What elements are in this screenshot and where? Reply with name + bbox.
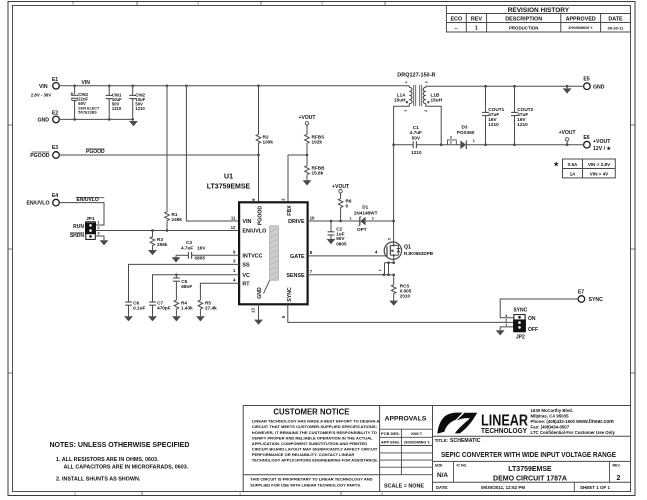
svg-text:SENSE: SENSE: [286, 273, 305, 279]
svg-text:EN/UVLO: EN/UVLO: [77, 197, 99, 203]
svg-text:SHEET 1 OF 1: SHEET 1 OF 1: [580, 485, 611, 490]
svg-text:VIN: VIN: [39, 84, 48, 90]
svg-text:1A: 1A: [570, 171, 577, 176]
svg-text:DRQ127-150-R: DRQ127-150-R: [397, 73, 435, 79]
svg-text:DESCRIPTION: DESCRIPTION: [505, 16, 542, 22]
svg-text:+VOUT: +VOUT: [593, 139, 611, 145]
svg-text:0805: 0805: [195, 256, 206, 261]
svg-text:12: 12: [231, 225, 236, 230]
svg-text:N/A: N/A: [437, 472, 448, 479]
svg-text:4.7uF: 4.7uF: [410, 130, 422, 135]
svg-text:1210: 1210: [411, 150, 422, 155]
svg-text:POS360: POS360: [457, 130, 475, 135]
svg-text:27.4k: 27.4k: [205, 305, 217, 310]
svg-text:255k: 255k: [157, 242, 168, 247]
svg-text:KIM T.: KIM T.: [411, 431, 423, 436]
svg-text:APP ENG.: APP ENG.: [381, 439, 400, 444]
svg-text:249k: 249k: [172, 217, 183, 222]
svg-text:--: --: [455, 26, 459, 32]
svg-text:1: 1: [349, 217, 351, 221]
svg-text:IC NO.: IC NO.: [457, 463, 468, 467]
svg-text:TITLE:: TITLE:: [435, 438, 449, 443]
svg-text:SEPIC CONVERTER WITH WIDE INPU: SEPIC CONVERTER WITH WIDE INPUT VOLTAGE …: [441, 450, 616, 459]
svg-text:APPROVALS: APPROVALS: [385, 416, 427, 423]
svg-text:1210: 1210: [112, 106, 122, 111]
svg-text:3: 3: [450, 135, 452, 139]
svg-text:0.5A: 0.5A: [568, 162, 578, 167]
svg-text:DEMO CIRCUIT 1787A: DEMO CIRCUIT 1787A: [493, 475, 567, 482]
svg-text:APPROVED: APPROVED: [566, 16, 596, 22]
svg-text:PCB DES.: PCB DES.: [381, 431, 400, 436]
svg-text:5: 5: [74, 492, 76, 496]
svg-text:50CE22BS: 50CE22BS: [78, 111, 97, 115]
svg-text:ECO: ECO: [450, 16, 462, 22]
svg-text:★: ★: [554, 161, 560, 168]
svg-text:APPLICATION. COMPONENT SUBSTIT: APPLICATION. COMPONENT SUBSTITUTION AND …: [252, 441, 367, 446]
svg-text:EN/UVLO: EN/UVLO: [242, 229, 266, 235]
svg-text:3: 3: [381, 492, 383, 496]
svg-text:1210: 1210: [517, 122, 528, 127]
svg-text:REV.: REV.: [613, 463, 621, 467]
svg-text:LINEAR TECHNOLOGY HAS MADE A B: LINEAR TECHNOLOGY HAS MADE A BEST EFFORT…: [252, 419, 380, 424]
svg-text:15.8k: 15.8k: [312, 171, 324, 176]
svg-text:E4: E4: [52, 193, 58, 199]
svg-text:2: 2: [505, 319, 507, 323]
svg-text:1: 1: [505, 323, 507, 327]
svg-text:FBX: FBX: [287, 205, 293, 216]
svg-text:DATE: DATE: [608, 16, 623, 22]
svg-text:VIN > 4V: VIN > 4V: [590, 171, 609, 176]
svg-text:SCHEMATIC: SCHEMATIC: [450, 438, 481, 444]
svg-text:VIN > 2.8V: VIN > 2.8V: [588, 162, 611, 167]
svg-text:ON: ON: [528, 316, 536, 322]
svg-text:Q1: Q1: [404, 245, 411, 251]
svg-text:09-30-11: 09-30-11: [608, 25, 625, 30]
svg-text:Milpitas, CA 95035: Milpitas, CA 95035: [531, 413, 570, 418]
svg-text:5: 5: [387, 238, 391, 240]
svg-text:E6: E6: [583, 135, 589, 141]
svg-text:2: 2: [97, 226, 99, 230]
svg-text:JP1: JP1: [86, 216, 95, 222]
svg-text:3: 3: [97, 232, 99, 236]
svg-text:E3: E3: [52, 145, 58, 151]
svg-text:EN/UVLO: EN/UVLO: [26, 201, 49, 207]
svg-text:RT: RT: [242, 281, 250, 287]
svg-text:CIRCUIT THAT MEETS CUSTOMER-SU: CIRCUIT THAT MEETS CUSTOMER-SUPPLIED SPE…: [252, 424, 377, 429]
svg-text:1.43k: 1.43k: [181, 305, 193, 310]
svg-text:1: 1: [97, 220, 99, 224]
svg-text:OPT: OPT: [357, 227, 367, 232]
svg-text:50V: 50V: [412, 136, 421, 141]
svg-text:INTVCC: INTVCC: [242, 253, 262, 259]
svg-text:5: 5: [72, 2, 74, 6]
svg-text:68nF: 68nF: [181, 284, 192, 289]
svg-text:4: 4: [404, 81, 408, 83]
svg-text:3: 3: [425, 81, 429, 83]
svg-text:2: 2: [617, 475, 621, 482]
svg-text:ZHONGMING Y.: ZHONGMING Y.: [404, 440, 430, 444]
svg-text:1210: 1210: [488, 122, 499, 127]
svg-text:+VOUT: +VOUT: [559, 130, 576, 136]
svg-text:DRIVE: DRIVE: [288, 219, 305, 225]
svg-text:SUPPLIED FOR USE WITH LINEAR T: SUPPLIED FOR USE WITH LINEAR TECHNOLOGY …: [250, 482, 361, 487]
svg-text:15uH: 15uH: [431, 97, 443, 102]
svg-text:2010: 2010: [400, 294, 411, 299]
svg-text:D1: D1: [362, 205, 368, 210]
svg-text:NOTES: UNLESS OTHERWISE SPECI: NOTES: UNLESS OTHERWISE SPECIFIED: [50, 442, 190, 449]
svg-text:10: 10: [310, 216, 315, 221]
svg-text:50V: 50V: [78, 101, 86, 106]
svg-text:3: 3: [321, 2, 323, 6]
svg-text:1. ALL RESISTORS ARE IN OHMS,: 1. ALL RESISTORS ARE IN OHMS, 0603.: [56, 457, 159, 463]
svg-text:1N4148WT: 1N4148WT: [354, 211, 378, 216]
svg-text:1: 1: [473, 139, 475, 143]
svg-text:LTC Confidential-For Customer: LTC Confidential-For Customer Use Only: [531, 430, 616, 435]
svg-text:VC: VC: [242, 273, 250, 279]
svg-text:CUSTOMER NOTICE: CUSTOMER NOTICE: [273, 408, 350, 417]
svg-text:VIN: VIN: [242, 219, 251, 225]
svg-text:102k: 102k: [312, 140, 323, 145]
svg-text:0805: 0805: [336, 241, 347, 246]
svg-text:GND: GND: [257, 287, 263, 299]
svg-text:11: 11: [231, 215, 236, 220]
svg-text:4: 4: [239, 492, 241, 496]
svg-text:LT3759EMSE: LT3759EMSE: [508, 466, 552, 473]
svg-text:1630 McCarthy Blvd.: 1630 McCarthy Blvd.: [531, 408, 574, 413]
svg-text:1210: 1210: [135, 106, 145, 111]
svg-text:E7: E7: [578, 289, 584, 295]
svg-text:PGOOD: PGOOD: [86, 149, 105, 155]
svg-text:TECHNOLOGY: TECHNOLOGY: [481, 426, 527, 435]
svg-text:RUN: RUN: [73, 224, 84, 230]
svg-text:470pF: 470pF: [157, 305, 171, 310]
svg-text:1: 1: [475, 26, 478, 32]
svg-text:SYNC: SYNC: [513, 308, 527, 314]
svg-text:SIZE: SIZE: [435, 463, 443, 467]
svg-text:PGOOD: PGOOD: [30, 153, 50, 159]
svg-text:09/30/2011, 12:52 PM: 09/30/2011, 12:52 PM: [481, 485, 526, 490]
svg-text:SHDN: SHDN: [70, 233, 85, 239]
svg-text:13: 13: [250, 308, 255, 313]
svg-text:REV: REV: [471, 16, 482, 22]
svg-text:E2: E2: [52, 110, 58, 116]
svg-text:2.8V - 36V: 2.8V - 36V: [31, 93, 51, 98]
svg-text:HOWEVER, IT REMAINS THE CUSTOM: HOWEVER, IT REMAINS THE CUSTOMER'S RESPO…: [252, 430, 377, 435]
svg-text:D3: D3: [462, 125, 468, 130]
svg-text:E5: E5: [583, 76, 589, 82]
svg-text:16V: 16V: [197, 245, 206, 250]
svg-text:C1: C1: [413, 125, 419, 130]
svg-text:2: 2: [450, 141, 452, 145]
svg-text:GND: GND: [37, 117, 49, 123]
svg-text:JP2: JP2: [516, 335, 525, 341]
svg-text:CIRCUIT BOARD LAYOUT MAY SIGNI: CIRCUIT BOARD LAYOUT MAY SIGNIFICANTLY A…: [252, 447, 378, 452]
svg-text:REVISION HISTORY: REVISION HISTORY: [508, 7, 570, 14]
svg-text:4.7uF: 4.7uF: [181, 245, 193, 250]
svg-text:ZHONGMING Y.: ZHONGMING Y.: [568, 26, 593, 30]
svg-text:PGOOD: PGOOD: [258, 206, 264, 226]
svg-text:2: 2: [372, 217, 374, 221]
svg-text:12V / ★: 12V / ★: [593, 146, 612, 152]
svg-text:0.1uF: 0.1uF: [133, 305, 145, 310]
svg-text:SS: SS: [242, 263, 250, 269]
svg-text:PERFORMANCE OR RELIABILITY. C: PERFORMANCE OR RELIABILITY. CONTACT LINE…: [252, 452, 355, 457]
svg-text:GATE: GATE: [290, 254, 305, 260]
svg-text:SYNC: SYNC: [287, 287, 293, 302]
svg-text:2. INSTALL SHUNTS AS SHOWN.: 2. INSTALL SHUNTS AS SHOWN.: [56, 476, 141, 482]
svg-text:U1: U1: [224, 173, 233, 180]
svg-text:PRODUCTION: PRODUCTION: [509, 25, 539, 30]
svg-text:SCALE = NONE: SCALE = NONE: [384, 484, 424, 490]
svg-text:LT3759EMSE: LT3759EMSE: [207, 184, 251, 191]
svg-text:6: 6: [251, 198, 256, 201]
svg-text:1: 1: [404, 110, 408, 112]
svg-text:DATE:: DATE:: [436, 485, 448, 490]
svg-text:VIN: VIN: [82, 80, 91, 86]
svg-text:E1: E1: [52, 77, 58, 83]
svg-text:GND: GND: [593, 84, 605, 90]
svg-text:+VOUT: +VOUT: [299, 115, 316, 121]
svg-text:2: 2: [424, 110, 428, 112]
svg-text:15uH: 15uH: [394, 97, 406, 102]
svg-text:ALL CAPACITORS ARE IN MICROFAR: ALL CAPACITORS ARE IN MICROFARADS, 0603.: [64, 464, 189, 470]
svg-text:TECHNOLOGY APPLICATIONS ENGINE: TECHNOLOGY APPLICATIONS ENGINEERING FOR …: [252, 458, 378, 463]
svg-text:C3: C3: [186, 240, 192, 245]
svg-text:Fax: (408)434-0507: Fax: (408)434-0507: [531, 424, 570, 429]
svg-text:100k: 100k: [263, 140, 274, 145]
svg-text:4: 4: [197, 2, 199, 6]
svg-text:THIS CIRCUIT IS PROPRIETARY TO: THIS CIRCUIT IS PROPRIETARY TO LINEAR TE…: [250, 476, 372, 481]
svg-text:0: 0: [346, 204, 349, 209]
svg-text:RJK0652DPB: RJK0652DPB: [404, 251, 434, 256]
svg-text:OFF: OFF: [528, 327, 538, 333]
svg-text:VERIFY PROPER AND RELIABLE OPE: VERIFY PROPER AND RELIABLE OPERATION IN …: [252, 435, 373, 440]
svg-text:3: 3: [505, 314, 507, 318]
svg-text:SYNC: SYNC: [589, 297, 604, 303]
